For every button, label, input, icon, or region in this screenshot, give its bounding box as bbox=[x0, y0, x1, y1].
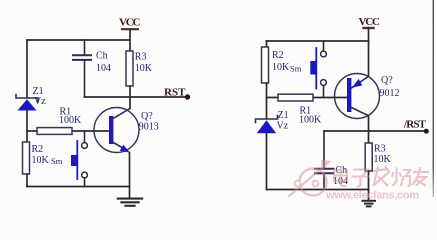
watermark char 4 bbox=[392, 168, 410, 187]
svg-text:/RST: /RST bbox=[403, 118, 427, 130]
svg-text:Q?: Q? bbox=[381, 75, 393, 86]
svg-text:Q?: Q? bbox=[141, 111, 153, 122]
svg-text:R2: R2 bbox=[32, 144, 44, 155]
wire: zener to R2 bbox=[26, 111, 28, 143]
wire: collector down to R3 bbox=[368, 116, 370, 143]
resistor R2 (left) bbox=[23, 142, 30, 174]
power VCC (right) bbox=[364, 28, 374, 76]
svg-text:R2: R2 bbox=[272, 50, 284, 61]
wire: R3 bottom to collector bbox=[129, 86, 131, 109]
wire: emitter down bbox=[129, 153, 131, 199]
svg-text:VCC: VCC bbox=[119, 17, 141, 29]
svg-text:10K: 10K bbox=[272, 62, 290, 73]
capacitor C2 Ch lead top bbox=[323, 131, 325, 169]
wire: R2 bottom to zener bbox=[266, 83, 268, 118]
switch S1 (left pushbutton) bbox=[71, 131, 87, 187]
svg-text:10K: 10K bbox=[135, 63, 153, 74]
resistor R3 (left) bbox=[126, 51, 133, 86]
svg-text:R3: R3 bbox=[135, 52, 147, 63]
watermark char 3 bbox=[373, 166, 389, 186]
ground (right) bbox=[363, 190, 376, 207]
svg-text:Vz: Vz bbox=[277, 120, 289, 131]
wire: left vertical upper (VCC rail to zener) bbox=[26, 40, 28, 97]
capacitor C1 Ch lead top bbox=[84, 40, 86, 55]
svg-text:9013: 9013 bbox=[139, 122, 159, 133]
capacitor C1 Ch lead bottom bbox=[84, 61, 86, 98]
wire: base net left bbox=[27, 130, 109, 132]
node RST dot bbox=[185, 94, 190, 99]
svg-text:www.elecfans.com: www.elecfans.com bbox=[325, 190, 419, 202]
wire: RST net bbox=[85, 96, 188, 98]
page edge artifact line bbox=[0, 0, 1, 1]
wire: left vertical to R2 bbox=[266, 41, 268, 47]
resistor R1 (right) bbox=[278, 94, 313, 101]
wire: R2 bottom bbox=[26, 174, 28, 187]
wire: top rail right circuit bbox=[267, 40, 369, 42]
transistor Q2 9012 bbox=[335, 74, 380, 119]
wire: top rail left circuit bbox=[27, 39, 130, 41]
transistor Q1 9013 bbox=[94, 108, 139, 153]
wire: bottom rail right circuit bbox=[267, 189, 369, 191]
svg-text:Sm: Sm bbox=[51, 156, 63, 166]
resistor R3 (right) bbox=[365, 143, 372, 171]
watermark char 5 bbox=[412, 167, 429, 186]
capacitor C2 Ch plates bbox=[315, 169, 334, 174]
wire: R3 bottom to bottom rail bbox=[368, 171, 370, 190]
resistor R1 (left) bbox=[37, 128, 72, 135]
ground (left) bbox=[118, 199, 142, 206]
wire: bottom rail left circuit bbox=[27, 186, 130, 188]
capacitor C1 Ch plates bbox=[73, 55, 91, 60]
svg-text:100K: 100K bbox=[59, 115, 82, 126]
svg-text:10K: 10K bbox=[32, 155, 50, 166]
watermark char 2 bbox=[352, 170, 370, 187]
wire: /RST net bbox=[324, 130, 426, 132]
zener Z1 (left) bbox=[16, 95, 38, 111]
wire: base net right bbox=[267, 97, 348, 99]
svg-text:10K: 10K bbox=[374, 154, 392, 165]
svg-text:9012: 9012 bbox=[380, 88, 400, 99]
svg-text:RST: RST bbox=[164, 87, 186, 99]
power VCC (left) bbox=[122, 29, 138, 52]
node /RST dot bbox=[424, 129, 429, 134]
svg-text:R3: R3 bbox=[374, 144, 386, 155]
watermark char 1 bbox=[334, 166, 347, 186]
zener Z1 (right) bbox=[256, 116, 278, 134]
svg-text:Z1: Z1 bbox=[278, 110, 289, 121]
svg-text:100K: 100K bbox=[299, 115, 322, 126]
svg-text:VCC: VCC bbox=[359, 16, 381, 28]
svg-text:104: 104 bbox=[96, 63, 111, 74]
svg-text:Sm: Sm bbox=[290, 64, 302, 74]
svg-text:Vz: Vz bbox=[34, 96, 46, 107]
capacitor C2 Ch lead bottom bbox=[323, 174, 325, 190]
switch S2 (right pushbutton) bbox=[310, 41, 326, 98]
wire: zener bottom to bottom rail bbox=[266, 133, 268, 189]
svg-text:Ch: Ch bbox=[96, 51, 108, 62]
resistor R2 (right) bbox=[262, 47, 269, 83]
